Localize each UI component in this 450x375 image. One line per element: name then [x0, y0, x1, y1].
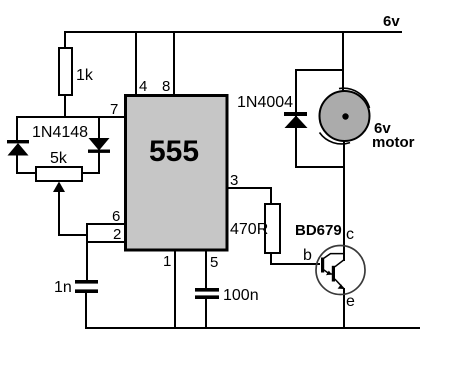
capacitor C2 100n plates [195, 288, 219, 299]
svg-text:7: 7 [110, 101, 118, 118]
wire pin 8 from rail to 555 top [173, 31, 175, 96]
svg-text:5k: 5k [50, 150, 68, 167]
svg-text:1k: 1k [76, 67, 94, 84]
wire pin 7 horizontal to 555 [17, 116, 125, 118]
wire from 6v rail down to R1 top [64, 31, 66, 49]
capacitor C1 1n plates [75, 280, 98, 293]
wire pin 3 output to R2 top [227, 188, 271, 205]
svg-text:e: e [346, 293, 355, 310]
resistor R2 470R body [265, 204, 280, 253]
wire pin 2 to 555 [86, 241, 125, 243]
svg-text:c: c [346, 226, 354, 243]
svg-text:555: 555 [149, 135, 199, 168]
svg-text:100n: 100n [223, 287, 259, 304]
svg-text:motor: motor [372, 134, 415, 151]
wire wiper to pin6/pin2 bus [58, 234, 88, 236]
wire C2 bottom to ground rail [205, 298, 207, 329]
wire D3 branch vertical [295, 69, 297, 168]
IC U1 555 body [126, 96, 228, 251]
motor M1 body [320, 88, 370, 144]
svg-text:470R: 470R [230, 221, 268, 238]
wire D1 anode down then right to pot left end [17, 154, 36, 173]
wire R2 bottom to transistor base [271, 252, 320, 264]
resistor R1 1k body [59, 48, 72, 95]
wire motor branch from 6v rail down to motor [342, 31, 344, 92]
wire vertical bus pin6 to pin2 to C1 [86, 223, 88, 281]
svg-text:6v: 6v [383, 13, 400, 30]
wire pin 5 from 555 bottom to C2 [205, 248, 207, 289]
svg-text:b: b [303, 247, 312, 264]
wire motor bottom junction horizontal [295, 166, 344, 168]
svg-text:3: 3 [230, 172, 238, 189]
wire pin 4 from rail to 555 top [135, 31, 137, 96]
wire D3 top horizontal from diode to motor branch [296, 69, 344, 71]
wire C1 bottom to ground rail [85, 292, 87, 329]
svg-text:4: 4 [139, 78, 147, 95]
wire bottom ground rail [85, 327, 420, 329]
svg-text:5: 5 [210, 254, 218, 271]
wire emitter down to ground rail [343, 288, 345, 329]
transistor Q1 BD679 circle [316, 246, 365, 295]
pot wiper arrowhead [53, 182, 65, 193]
wire R1 bottom to pin7 node [64, 94, 66, 117]
wire pin 6 to 555 [86, 223, 125, 225]
wire motor bottom to collector [343, 140, 345, 168]
svg-text:1: 1 [163, 253, 171, 270]
svg-text:BD679: BD679 [295, 222, 342, 239]
wire pin 1 from 555 bottom to ground rail [174, 248, 176, 329]
wire right branch down to diode D2 [98, 116, 100, 139]
wire +6v top supply rail [64, 31, 402, 33]
transistor Q1 darlington internals [321, 254, 344, 289]
wire left branch down to diode D1 [16, 116, 18, 141]
diode D1 1N4148 left, pointing up [7, 140, 29, 156]
svg-text:6: 6 [112, 208, 120, 225]
potentiometer VR1 5k body [36, 167, 82, 181]
diode D3 1N4004 flyback, pointing up [284, 112, 308, 128]
svg-text:1N4148: 1N4148 [32, 124, 88, 141]
wire pot wiper down [58, 190, 60, 236]
svg-text:1n: 1n [54, 279, 72, 296]
svg-text:1N4004: 1N4004 [237, 94, 293, 111]
wire D2 cathode down then left to pot right end [82, 152, 99, 173]
svg-text:8: 8 [162, 78, 170, 95]
svg-text:2: 2 [113, 226, 121, 243]
diode D2 1N4148 right, pointing down [88, 138, 110, 153]
wire collector down to transistor [343, 167, 345, 261]
